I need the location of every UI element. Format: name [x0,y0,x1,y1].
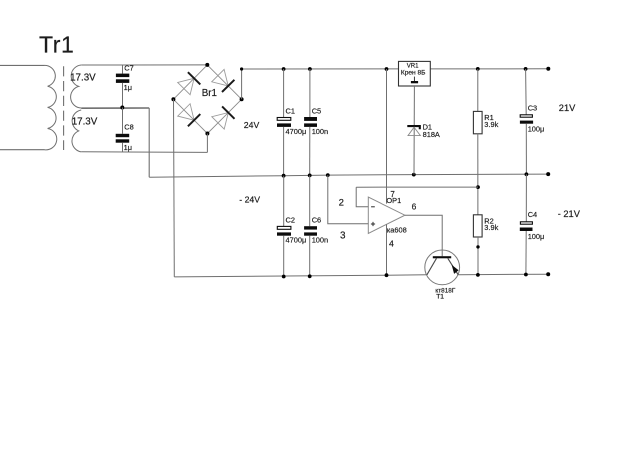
svg-text:1μ: 1μ [124,143,132,152]
diode Br1 upper-right [212,69,235,92]
op-amp OP1 [368,197,405,233]
resistor R1 [473,67,498,134]
node D1 to 0V rail [412,173,416,177]
svg-text:- 24V: - 24V [239,194,260,204]
svg-text:C4: C4 [528,210,537,219]
wire feedback to divider [356,186,478,188]
capacitor C7 [116,63,134,107]
capacitor C2 [277,176,306,279]
svg-text:17.3V: 17.3V [72,116,98,127]
svg-text:818A: 818A [423,130,440,139]
svg-text:C5: C5 [312,107,321,116]
wire secondary bottom to bridge [81,151,207,154]
svg-text:100n: 100n [312,127,328,136]
wire +24V top rail [242,68,549,70]
wire primary bottom lead [0,149,45,151]
svg-text:4700μ: 4700μ [286,127,307,136]
svg-text:3.9k: 3.9k [484,120,498,129]
svg-text:C7: C7 [124,63,133,72]
capacitor C5 [304,67,328,177]
transformer Tr1 secondary winding lower [72,110,81,152]
wire centre tap drop [148,108,150,177]
svg-text:24V: 24V [244,120,260,130]
node bridge left [171,97,175,101]
svg-text:C1: C1 [286,107,295,116]
svg-text:100n: 100n [312,236,328,245]
capacitor C1 [277,67,306,178]
transformer Tr1 primary winding [45,65,57,149]
node bridge top [205,63,209,67]
wire bridge left drop [173,99,176,277]
svg-text:3: 3 [340,230,346,241]
wire op-amp pin4 to -24V [386,224,388,275]
svg-text:4: 4 [389,239,394,249]
node 0V rail end [546,172,550,176]
wire -24V rail right part [458,273,548,276]
svg-text:Крен 8Б: Крен 8Б [401,70,426,77]
transformer Tr1 core [63,66,65,150]
svg-text:C6: C6 [312,215,321,224]
op-amp OP1 pin7 supply wire [385,67,389,71]
wire R1 to R2 [477,134,479,215]
wire op-amp pin2 input [356,187,368,207]
capacitor C6 [304,175,328,278]
capacitor C8 [116,108,134,153]
svg-text:T1: T1 [436,293,444,300]
node top rail corner [240,67,243,70]
transistor T1 [425,250,460,300]
wire primary top lead [0,64,45,66]
svg-text:C3: C3 [528,103,537,112]
diode Br1 upper-left [178,72,201,95]
wire -24V rail left part [174,275,427,277]
wire bridge right riser [242,69,247,99]
wire op-amp pin3 input [328,175,369,224]
svg-text:17.3V: 17.3V [70,72,96,83]
wire secondary top to bridge [81,64,207,66]
wire 0V rail [149,174,548,177]
svg-text:2: 2 [339,198,344,209]
svg-text:Tr1: Tr1 [39,32,74,58]
svg-text:Br1: Br1 [202,88,217,99]
zener diode D1 [407,122,440,139]
bridge Br1 diamond [173,65,241,134]
wire op-amp output to T1 base [405,215,442,256]
capacitor C4 [520,174,544,276]
node bridge bottom [205,132,209,136]
svg-text:1μ: 1μ [124,83,132,92]
wire secondary centre tap [81,107,149,109]
resistor R2 [473,215,498,277]
node top rail end [546,67,550,71]
svg-text:21V: 21V [559,103,576,113]
svg-text:100μ: 100μ [528,232,545,241]
capacitor C3 [520,67,544,176]
svg-text:6: 6 [412,201,417,211]
node bridge right [240,97,244,101]
transformer Tr1 secondary winding upper [71,65,82,108]
svg-text:ка608: ка608 [387,225,407,234]
svg-text:4700μ: 4700μ [286,236,307,245]
diode Br1 lower-right [212,106,235,129]
node feedback junction [476,185,480,189]
wire VR1 to D1 [413,86,415,175]
svg-text:C8: C8 [124,122,133,131]
svg-text:3.9k: 3.9k [484,223,498,232]
diode Br1 lower-left [178,104,201,127]
svg-text:- 21V: - 21V [558,209,581,219]
svg-text:100μ: 100μ [528,125,545,134]
regulator VR1 [399,61,431,86]
node centre tap junction [120,106,124,110]
node op-amp pin3 to 0V rail [326,173,330,177]
node -24V rail end [546,272,550,276]
svg-text:C2: C2 [286,215,295,224]
wire bridge bottom drop [206,134,208,153]
svg-text:OP1: OP1 [386,196,401,205]
